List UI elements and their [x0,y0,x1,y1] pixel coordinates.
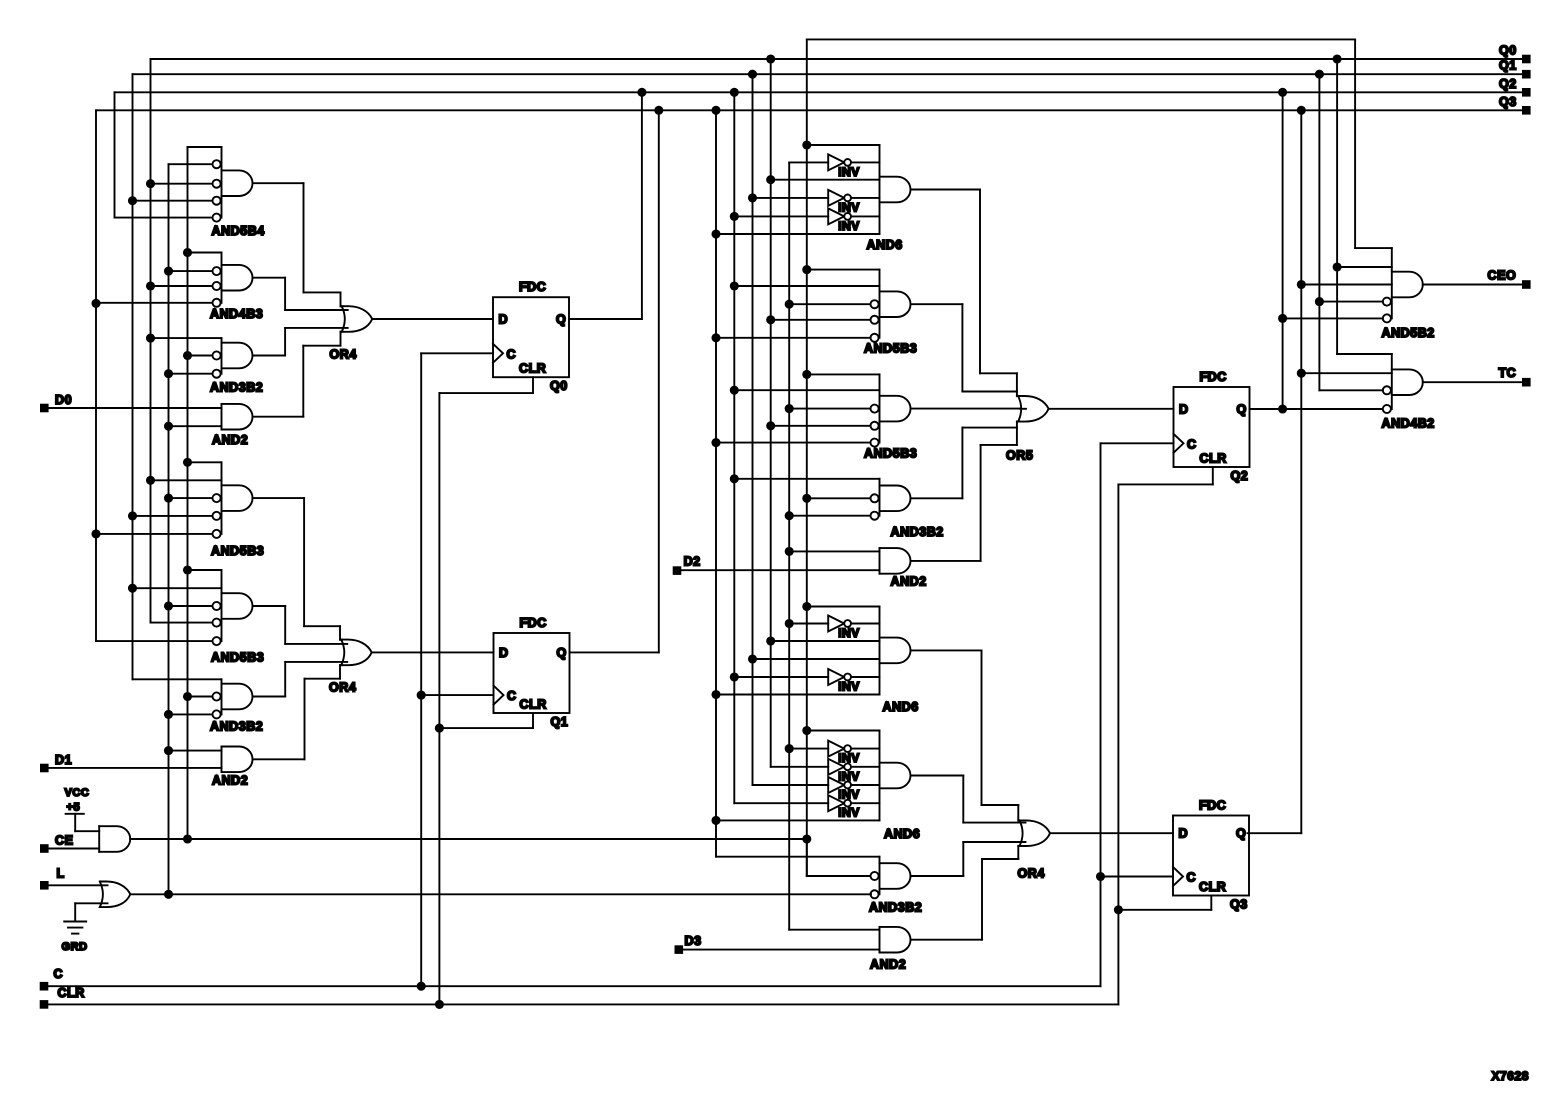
wire right riser from Q0 line x1337.1 [1336,59,1338,354]
terminal CE input pin [40,844,49,853]
and-gate AND5B3 first (5-input, 3 inverted) [221,462,223,534]
and-gate AND5B3 fourth (5-input, 3 inverted) [879,374,881,442]
svg-text:AND5B3: AND5B3 [864,342,917,356]
wire D0 to AND2 [49,407,222,409]
and-gate AND2 second (D1 load term) [221,747,223,773]
wire CLR bus vertical [438,393,440,1004]
svg-text:AND5B3: AND5B3 [211,651,264,665]
wire AND3B2 input1 from Q0 bus [151,337,222,339]
wire Lint line to AND3B2-4 [130,893,871,895]
svg-text:INV: INV [838,165,860,179]
or-gate OR4 third (drives FDC Q3) [1020,820,1051,846]
svg-text:AND3B2: AND3B2 [210,381,263,395]
svg-text:AND5B3: AND5B3 [864,447,917,461]
wire AND3B2-4 input1 from Q1 bus [716,856,880,858]
wire OR4-2 output to FDC Q1 D [372,651,494,653]
svg-text:Q3: Q3 [1499,95,1517,109]
wire AND5B4 input2 from Lint [169,163,213,165]
wire AND5B3 input4 from Q1 bus [133,515,213,517]
wire AND3B2 output to OR4 [253,355,286,357]
wire AND4B2 input3 from Q1 riser corner [1319,389,1382,391]
and-gate AND3B2 fourth (3-input, 2 inverted) [879,857,881,895]
svg-text:CLR: CLR [520,698,547,712]
svg-text:D1: D1 [55,753,72,767]
wire AND5B3-3 output to OR5 riser [911,303,963,305]
wire OR4 in1 step [304,291,341,293]
svg-text:TC: TC [1499,366,1517,380]
wire left bus Q0 vertical x150.5 [150,59,152,623]
wire AND3B2-2 input2 from CEint [188,696,213,698]
wire AND5B3-3 input5 from Q1 bus [716,337,871,339]
terminal Q0 output pin [1522,55,1531,64]
terminal D1 input pin [40,764,49,773]
wire middle bus CEint vertical x806.8 with top run to CEO [806,39,808,876]
wire AND5B4 output to OR4 riser [253,182,304,184]
inverter INV on AND6 input5 [828,208,844,224]
wire AND6-3 output to OR4 third [911,775,964,777]
wire AND2-4 input1 from Lint [789,929,879,931]
svg-text:CLR: CLR [519,362,546,376]
wire FDC Q3 CLR down [1210,896,1212,910]
wire AND5B4 input5 from Q2 bus [115,217,213,219]
and-gate AND6 first (6-input) [879,145,881,234]
wire AND5B4 input4 from Q1 bus [133,200,213,202]
svg-text:AND4B2: AND4B2 [1382,417,1435,431]
svg-text:Q: Q [556,313,566,327]
wire AND2-3 output to OR5 riser [911,560,981,562]
svg-text:AND2: AND2 [891,575,927,589]
wire INV out [851,623,880,625]
wire AND5B2 output to CEO [1423,284,1523,286]
wire C riser to FDC Q3 [1101,876,1174,878]
wire D2 to AND2-3 [681,569,879,571]
wire AND4B3 input1 from CEint [188,252,222,254]
wire OR5 in3 into body [1020,408,1026,410]
wire middle bus Q1 vertical x716 [715,110,717,856]
wire AND5B2 input4 from Q1 riser [1319,301,1382,303]
terminal C clock input pin [40,982,49,991]
wire AND5B3-4 input3 from Lint [789,408,870,410]
wire OR4-2 in1 step [304,625,340,627]
wire middle bus Q2 vertical x770.7 [770,59,772,767]
and-gate AND3B2 third (3-input, 2 inverted) [879,479,881,516]
terminal Q1 output pin [1522,70,1531,79]
wire AND6-3 input4 from Q3 bus [753,784,829,786]
svg-text:Q3: Q3 [1230,898,1248,912]
wire OR4 in4 step [303,345,340,347]
wire FDC Q2 Q output [1250,408,1283,410]
wire AND5B3-2 input3 from Lint [169,605,213,607]
svg-text:GRD: GRD [62,941,88,953]
wire AND4B3 input2 from Lint [169,270,213,272]
wire INV out to bar in2 [851,161,880,163]
wire OR4-3 in1 step [982,804,1019,806]
svg-text:VCC: VCC [65,787,90,799]
wire AND3B2-4 input2 from CEint [806,839,808,876]
wire C line [48,985,1101,987]
wire AND5B3-2 output to OR4 second [253,605,286,607]
svg-text:D: D [1179,402,1189,416]
svg-text:FDC: FDC [1200,370,1227,384]
svg-text:AND5B2: AND5B2 [1382,326,1435,340]
svg-text:OR4: OR4 [329,681,356,695]
svg-text:C: C [1187,871,1197,885]
wire AND6-3 input3 from Q2 bus [771,766,829,768]
wire CEint right riser x1355.1 [1354,39,1356,248]
wire INV out to bar in5 [851,215,880,217]
wire AND6 output to OR5 riser [911,189,981,191]
wire AND3B2-3 input3 from Lint [789,515,870,517]
wire AND6-2 input4 from Q3 bus [753,658,880,660]
wire AND6 input4 from Q3 bus [753,197,829,199]
and-gate AND5B3 third (5-input, 3 inverted) [879,270,881,338]
inverter INV on AND6-3 input4 [828,777,844,793]
terminal D3 input pin [675,945,684,954]
svg-text:Q0: Q0 [550,379,568,393]
inverter INV on AND6 input4 [828,190,844,206]
wire AND6 input6 from Q1 bus [716,233,880,235]
wire AND2-4 output to OR4 third [911,939,983,941]
wire CEint line to middle bus [130,838,807,840]
wire left bus Q1 vertical x132.5 [132,74,134,679]
wire AND5B3-4 output direct to OR5 in3 [911,408,1021,410]
wire Q3 feedback top line [96,109,1522,111]
and-gate AND2 fourth (D3 load term) [879,927,881,953]
wire AND5B2 input1 from CEint [1355,247,1392,249]
flip-flop FDC Q2 [1174,387,1250,467]
svg-text:INV: INV [838,219,860,233]
svg-text:CLR: CLR [1200,452,1227,466]
flip-flop FDC Q1 [494,633,570,713]
wire AND5B4 input1 from CEint [188,146,222,148]
svg-text:AND3B2: AND3B2 [210,720,263,734]
svg-text:C: C [54,967,64,981]
wire right riser from Q3 line x1301.3 dots [1297,280,1306,289]
wire FDC Q1 CLR to CLR bus [532,713,534,728]
wire AND6-2 input3 from Q2 bus [771,640,880,642]
svg-text:Q: Q [1236,827,1246,841]
or-gate OR5 (drives FDC Q2) [1018,396,1049,422]
wire AND4B3 input4 from Q3 bus [96,302,213,304]
wire AND5B3-4 input4 from Q2 bus [771,425,871,427]
wire AND2-2 input1 from Lint [169,750,222,752]
terminal L input pin [40,881,49,890]
wire AND6-3 input2 from Lint [789,748,828,750]
wire AND2 input2 from Lint [169,425,222,427]
wire AND6-3 input5 from Q0 bus [734,802,828,804]
wire AND2-3 input1 from Lint [789,550,879,552]
wire FDC Q2 CLR down [1212,467,1214,484]
terminal D2 input pin [673,566,682,575]
wire AND2-2 output to OR4 second [253,758,305,760]
wire OR4-3 in2 [963,822,1025,824]
wire AND5B3-4 input2 from Q0 bus [734,389,879,391]
wire AND5B4 input3 from Q0 bus [151,183,213,185]
svg-text:D0: D0 [55,393,72,407]
wire AND6-2 output to OR4 third riser [911,649,982,651]
ground GRD symbol [64,921,86,923]
svg-text:Q2: Q2 [1231,469,1249,483]
flip-flop FDC Q3 [1173,816,1249,896]
svg-text:AND3B2: AND3B2 [869,901,922,915]
wire left bus Q2 vertical x114.5 [114,92,116,217]
wire AND4B3 output to OR4 [253,277,286,279]
svg-text:D: D [499,646,509,660]
inverter INV on AND6-2 input5 [828,669,844,685]
wire OR4-2 in4 step [305,678,341,680]
svg-text:AND2: AND2 [870,958,906,972]
wire AND6 input3 from Q2 bus [771,179,880,181]
wire clock bus to FDC Q0 C [421,352,493,354]
wire OR4-3 output to FDC Q3 D [1050,832,1173,834]
wire AND5B3-2 input1 from CEint [188,569,222,571]
wire AND3B2-2 input3 from Lint [169,713,213,715]
terminal D0 input pin [40,404,49,413]
and-gate AND5B4 (5-input, 4 inverted) [221,147,223,218]
wire AND3B2-2 input1 from Q1 bus [133,678,222,680]
wire AND4B2 input2 from Q3 riser [1301,372,1392,374]
svg-text:CLR: CLR [1199,880,1226,894]
and-gate AND3B2 second (3-input, 2 inverted) [221,679,223,714]
wire AND5B3 output to OR4 second riser [253,497,305,499]
svg-text:AND6: AND6 [883,700,919,714]
wire AND4B3 input3 from Q0 bus [151,285,213,287]
wire Q1 feedback top line [133,73,1523,75]
wire C riser to FDC Q2 [1101,442,1174,444]
wire AND5B3-2 input4 from Q0 bus [151,622,213,624]
wire AND6-2 input2 from Lint [789,623,828,625]
wire OR4-3 in3 [963,841,1025,843]
svg-text:Q1: Q1 [551,715,569,729]
wire FDC Q0 CLR to CLR bus [532,377,534,393]
svg-text:D: D [1179,827,1189,841]
svg-text:AND2: AND2 [212,433,248,447]
svg-text:FDC: FDC [1199,799,1226,813]
svg-text:INV: INV [838,680,860,694]
wire clock bus to FDC Q1 C [421,694,493,696]
svg-text:Q0: Q0 [1499,44,1517,58]
wire Q2 feedback top line [115,91,1523,93]
wire OR5 in4 step [962,427,1017,429]
wire L to gate [49,884,108,886]
wire FDC Q0 Q output riser to Q2 line [569,318,642,320]
svg-text:C: C [1187,437,1197,451]
terminal Q3 output pin [1522,106,1531,115]
wire CLR riser right [1117,484,1119,1004]
wire AND3B2-3 input2 from CEint [807,497,871,499]
wire AND3B2-3 output to OR5 riser [911,497,963,499]
and-gate AND4B2 (TC gate) [1391,354,1393,409]
wire Q0 feedback top line [151,58,1523,60]
wire OR5 output to FDC Q2 D [1049,408,1174,410]
wire left bus Lint vertical x168.5 [168,164,170,894]
wire left bus CEint vertical x187.5 [187,147,189,839]
wire AND5B3-3 input3 from Lint [789,303,870,305]
wire AND5B3-3 input1 from CEint [807,269,880,271]
svg-text:FDC: FDC [519,280,546,294]
wire FDC Q2 Q to AND4B2 bubble [1283,408,1383,410]
wire right riser from Q1 line x1319.4 [1318,74,1320,390]
wire clock bus vertical [420,353,422,986]
wire AND5B3-2 input5 from Q3 bus [96,640,213,642]
wire INV out [851,676,880,678]
wire INV out [851,784,880,786]
wire FDC Q1 Q output riser to Q3 line [570,651,659,653]
terminal TC output pin [1522,378,1531,387]
terminal Q2 output pin [1522,88,1531,97]
wire D1 to AND2-2 [49,767,222,769]
wire AND3B2-2 output to OR4 second [253,696,286,698]
wire OR4 output to FDC D [372,318,493,320]
and-gate AND4B3 (4-input, 3 inverted) [221,253,223,303]
svg-text:OR4: OR4 [330,348,357,362]
svg-text:+5: +5 [67,802,81,814]
wire AND5B3-4 input5 from Q1 bus [716,442,871,444]
wire INV out [851,766,880,768]
wire AND5B3-3 input2 from Q0 bus [734,285,879,287]
and-gate AND5B2 (CEO gate) [1391,248,1393,318]
wire middle bus Q3 vertical x752.5 [752,74,754,785]
wire OR4-2 in3 [285,661,347,663]
svg-text:X7628: X7628 [1492,1069,1529,1083]
wire FDC Q3 Q output riser [1248,832,1302,834]
wire AND5B3 input5 from Q3 bus [96,533,213,535]
wire OR4-3 in4 step [982,858,1018,860]
wire AND5B3 input1 from CEint [188,461,222,463]
wire AND5B3 input3 from Lint [169,497,213,499]
wire CLR line [48,1003,1118,1005]
wire GRD to gate [75,902,107,904]
wire AND6-3 input6 from Q1 bus [716,819,880,821]
wire AND5B3 input2 from Q0 bus [151,479,222,481]
inverter INV on AND6 input2 [828,154,844,170]
svg-text:D3: D3 [685,934,702,948]
svg-text:FDC: FDC [520,616,547,630]
wire AND4B2 output to TC [1423,381,1523,383]
flip-flop FDC Q0 [493,297,569,377]
inverter INV on AND6-3 input2 [828,741,844,757]
wire OR5 in5 step [981,444,1017,446]
wire AND5B3-3 input4 from Q2 bus [771,319,871,321]
and-gate AND2 third (D2 load term) [879,548,881,574]
wire INV out [851,802,880,804]
wire AND6 input5 from Q0 bus [734,215,828,217]
wire AND3B2-4 output to OR4 third [911,875,964,877]
svg-text:INV: INV [838,626,860,640]
svg-text:AND6: AND6 [884,827,920,841]
terminal CLR input pin [40,1000,49,1009]
svg-text:D: D [499,313,509,327]
svg-text:Q1: Q1 [1499,59,1517,73]
terminal CEO output pin [1522,280,1531,289]
wire AND6-3 input1 from CEint [807,730,880,732]
svg-text:OR4: OR4 [1018,866,1045,880]
inverter INV on AND6-2 input2 [828,616,844,632]
and-gate AND2 first (D0 load term) [221,404,223,430]
wire INV out [851,748,880,750]
wire AND3B2-3 input1 from Q0 bus [734,478,879,480]
and-gate AND6 second (6-input) [879,607,881,695]
wire CE to gate [49,848,100,850]
wire middle bus Q0 vertical x734.3 [733,92,735,803]
svg-text:AND4B3: AND4B3 [210,307,263,321]
svg-text:OR5: OR5 [1006,449,1033,463]
wire AND2 output to OR4 [253,416,304,418]
wire OR4 in3 [285,327,348,329]
wire AND5B3-4 input1 from CEint [807,373,880,375]
svg-text:AND3B2: AND3B2 [891,525,944,539]
wire AND6-2 input6 from Q1 bus [716,694,880,696]
wire AND3B2 input2 from CEint [188,355,213,357]
svg-text:Q2: Q2 [1499,77,1517,91]
svg-text:Q: Q [557,646,567,660]
svg-text:CE: CE [55,833,73,847]
wire AND6-2 input5 from Q0 bus [734,676,828,678]
wire OR5 in2 step [962,391,1017,393]
svg-text:L: L [57,867,65,881]
wire AND6 input2 from Lint [789,161,828,163]
wire AND6 input1 from CEint [807,144,880,146]
wire AND6-2 input1 from CEint [807,606,880,608]
or-gate OR4 second (drives FDC Q1) [341,640,372,666]
wire left bus Q3 vertical x96 [95,110,97,641]
inverter INV on AND6-3 input3 [828,759,844,775]
svg-text:Q: Q [1237,402,1247,416]
svg-text:INV: INV [838,806,860,820]
wire AND5B2 input3 from Q3 riser [1301,284,1392,286]
wire AND5B3-2 input2 from Q1 bus [133,587,222,589]
wire middle bus Lint vertical x789.2 [788,162,790,929]
svg-text:AND5B3: AND5B3 [211,544,264,558]
svg-text:C: C [507,347,517,361]
wire Q2 feedback riser [1282,92,1284,409]
wire AND5B2 input2 from Q0 line riser [1337,266,1392,268]
wire D3 to AND2-4 [683,949,880,951]
and-gate CE gate (AND2) [98,826,100,852]
and-gate AND5B3 second (5-input, 3 inverted) [221,570,223,641]
wire AND4B2 input1 from Q0 riser corner [1337,353,1392,355]
and-gate AND3B2 first (3-input, 2 inverted) [221,338,223,374]
svg-text:AND5B4: AND5B4 [212,224,265,238]
wire INV out to bar in4 [851,197,880,199]
inverter INV on AND6-3 input5 [828,795,844,811]
svg-text:AND6: AND6 [867,238,903,252]
wire AND5B2 input5 from Q2 riser [1283,317,1383,319]
svg-text:C: C [507,689,517,703]
or-gate L gate (OR2) [100,882,131,908]
svg-text:D2: D2 [684,555,701,569]
wire OR4 in2 [285,309,348,311]
wire AND3B2 input3 from Lint [169,373,213,375]
wire OR5 in1 step [980,372,1017,374]
svg-text:AND2: AND2 [212,774,248,788]
and-gate AND6 third (6-input, 4 inverted) [879,731,881,821]
or-gate OR4 first (drives FDC Q0) [342,306,373,332]
wire OR4-2 in2 [285,643,347,645]
svg-text:CLR: CLR [58,986,85,1000]
svg-text:CEO: CEO [1488,269,1517,283]
